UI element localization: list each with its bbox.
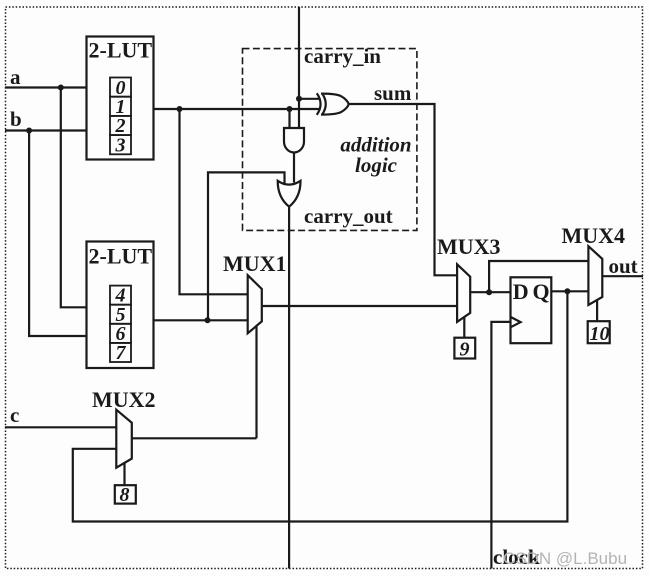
flip-flop DQ bbox=[511, 277, 552, 343]
wire MUX1 output to MUX3 input 1 bbox=[262, 305, 457, 307]
junction on wire a bbox=[58, 85, 64, 91]
xor gate sum bbox=[317, 93, 349, 115]
wire MUX2 output up to MUX1 select bbox=[132, 437, 257, 439]
or gate carry_out bbox=[278, 181, 301, 207]
svg-text:D: D bbox=[513, 279, 529, 304]
svg-text:2-LUT: 2-LUT bbox=[89, 244, 153, 269]
2-LUT upper box bbox=[87, 37, 154, 160]
svg-text:a: a bbox=[10, 65, 21, 89]
svg-text:Q: Q bbox=[533, 279, 550, 304]
wire lower LUT output to MUX1 input 1 bbox=[154, 319, 248, 321]
wire clock bbox=[491, 322, 510, 569]
2-LUT lower box bbox=[87, 242, 154, 369]
svg-text:c: c bbox=[10, 403, 19, 427]
wire LUT2 output to OR left input bbox=[208, 172, 285, 320]
wire MUX2 select to box 8 bbox=[123, 463, 125, 485]
svg-text:3: 3 bbox=[115, 134, 126, 156]
svg-text:carry_in: carry_in bbox=[304, 44, 381, 68]
svg-text:logic: logic bbox=[355, 153, 398, 177]
wire D node up and over to MUX4 input 0 bbox=[489, 261, 588, 292]
2-LUT lower table cells 4-7 bbox=[110, 286, 131, 362]
flip-flop clock triangle bbox=[511, 317, 521, 327]
junction D input bbox=[486, 289, 492, 295]
svg-text:MUX2: MUX2 bbox=[92, 387, 156, 412]
mux MUX2 bbox=[116, 410, 132, 468]
select value box 10 bbox=[588, 321, 610, 343]
2-LUT upper table cells 0-3 bbox=[110, 78, 131, 155]
svg-text:carry_out: carry_out bbox=[304, 204, 393, 228]
svg-text:8: 8 bbox=[120, 484, 130, 506]
wire AND output to OR input bbox=[293, 153, 295, 183]
svg-text:out: out bbox=[609, 254, 638, 278]
and gate bbox=[284, 128, 304, 153]
wire a to lower LUT input bbox=[61, 88, 87, 308]
wire upper LUT output to XOR input bbox=[154, 108, 320, 110]
select value box 9 bbox=[454, 338, 475, 359]
wire LUT1 output down to MUX1 input 0 bbox=[180, 109, 248, 294]
wire carry_out to bottom border bbox=[288, 207, 290, 569]
wire down to AND gate left input bbox=[288, 109, 290, 129]
wire a bbox=[5, 86, 87, 88]
mux MUX4 bbox=[588, 246, 602, 305]
mux MUX3 bbox=[457, 264, 470, 322]
junction carry_in bbox=[296, 96, 302, 102]
addition logic dashed box bbox=[243, 49, 417, 231]
wire MUX4 select to box 10 bbox=[596, 300, 598, 321]
wire MUX3 select to box 9 bbox=[463, 317, 465, 337]
select value box 8 bbox=[115, 485, 136, 503]
wire MUX1 select from MUX2 output bbox=[255, 327, 257, 439]
svg-text:sum: sum bbox=[374, 81, 412, 105]
mux MUX1 bbox=[248, 275, 262, 333]
svg-text:MUX3: MUX3 bbox=[437, 234, 501, 259]
junction LUT1 output bbox=[177, 106, 183, 112]
wire b bbox=[5, 129, 87, 131]
svg-text:7: 7 bbox=[116, 342, 127, 364]
svg-text:b: b bbox=[10, 107, 22, 131]
svg-text:10: 10 bbox=[590, 323, 610, 345]
wire MUX3 output to D input bbox=[470, 291, 510, 293]
junction LUT2 output bbox=[205, 317, 211, 323]
wire Q output to MUX4 input 1 bbox=[551, 290, 588, 292]
junction on wire b bbox=[26, 128, 32, 134]
svg-text:MUX1: MUX1 bbox=[223, 251, 287, 276]
wire sum: XOR output to MUX3 input bbox=[349, 104, 458, 275]
wire carry_in to XOR upper input bbox=[299, 98, 320, 100]
junction at AND input bbox=[287, 106, 293, 112]
svg-text:MUX4: MUX4 bbox=[562, 223, 626, 248]
svg-text:9: 9 bbox=[460, 338, 470, 360]
wire carry_in from top border bbox=[298, 7, 300, 129]
svg-text:CSDN @L.Bubu: CSDN @L.Bubu bbox=[503, 549, 627, 568]
wire c bbox=[5, 426, 116, 428]
junction Q output bbox=[564, 288, 570, 294]
wire feedback from Q to MUX2 input bbox=[73, 291, 568, 521]
wire out bbox=[602, 275, 643, 277]
wire b to lower LUT input bbox=[29, 131, 87, 337]
svg-text:2-LUT: 2-LUT bbox=[89, 38, 153, 63]
